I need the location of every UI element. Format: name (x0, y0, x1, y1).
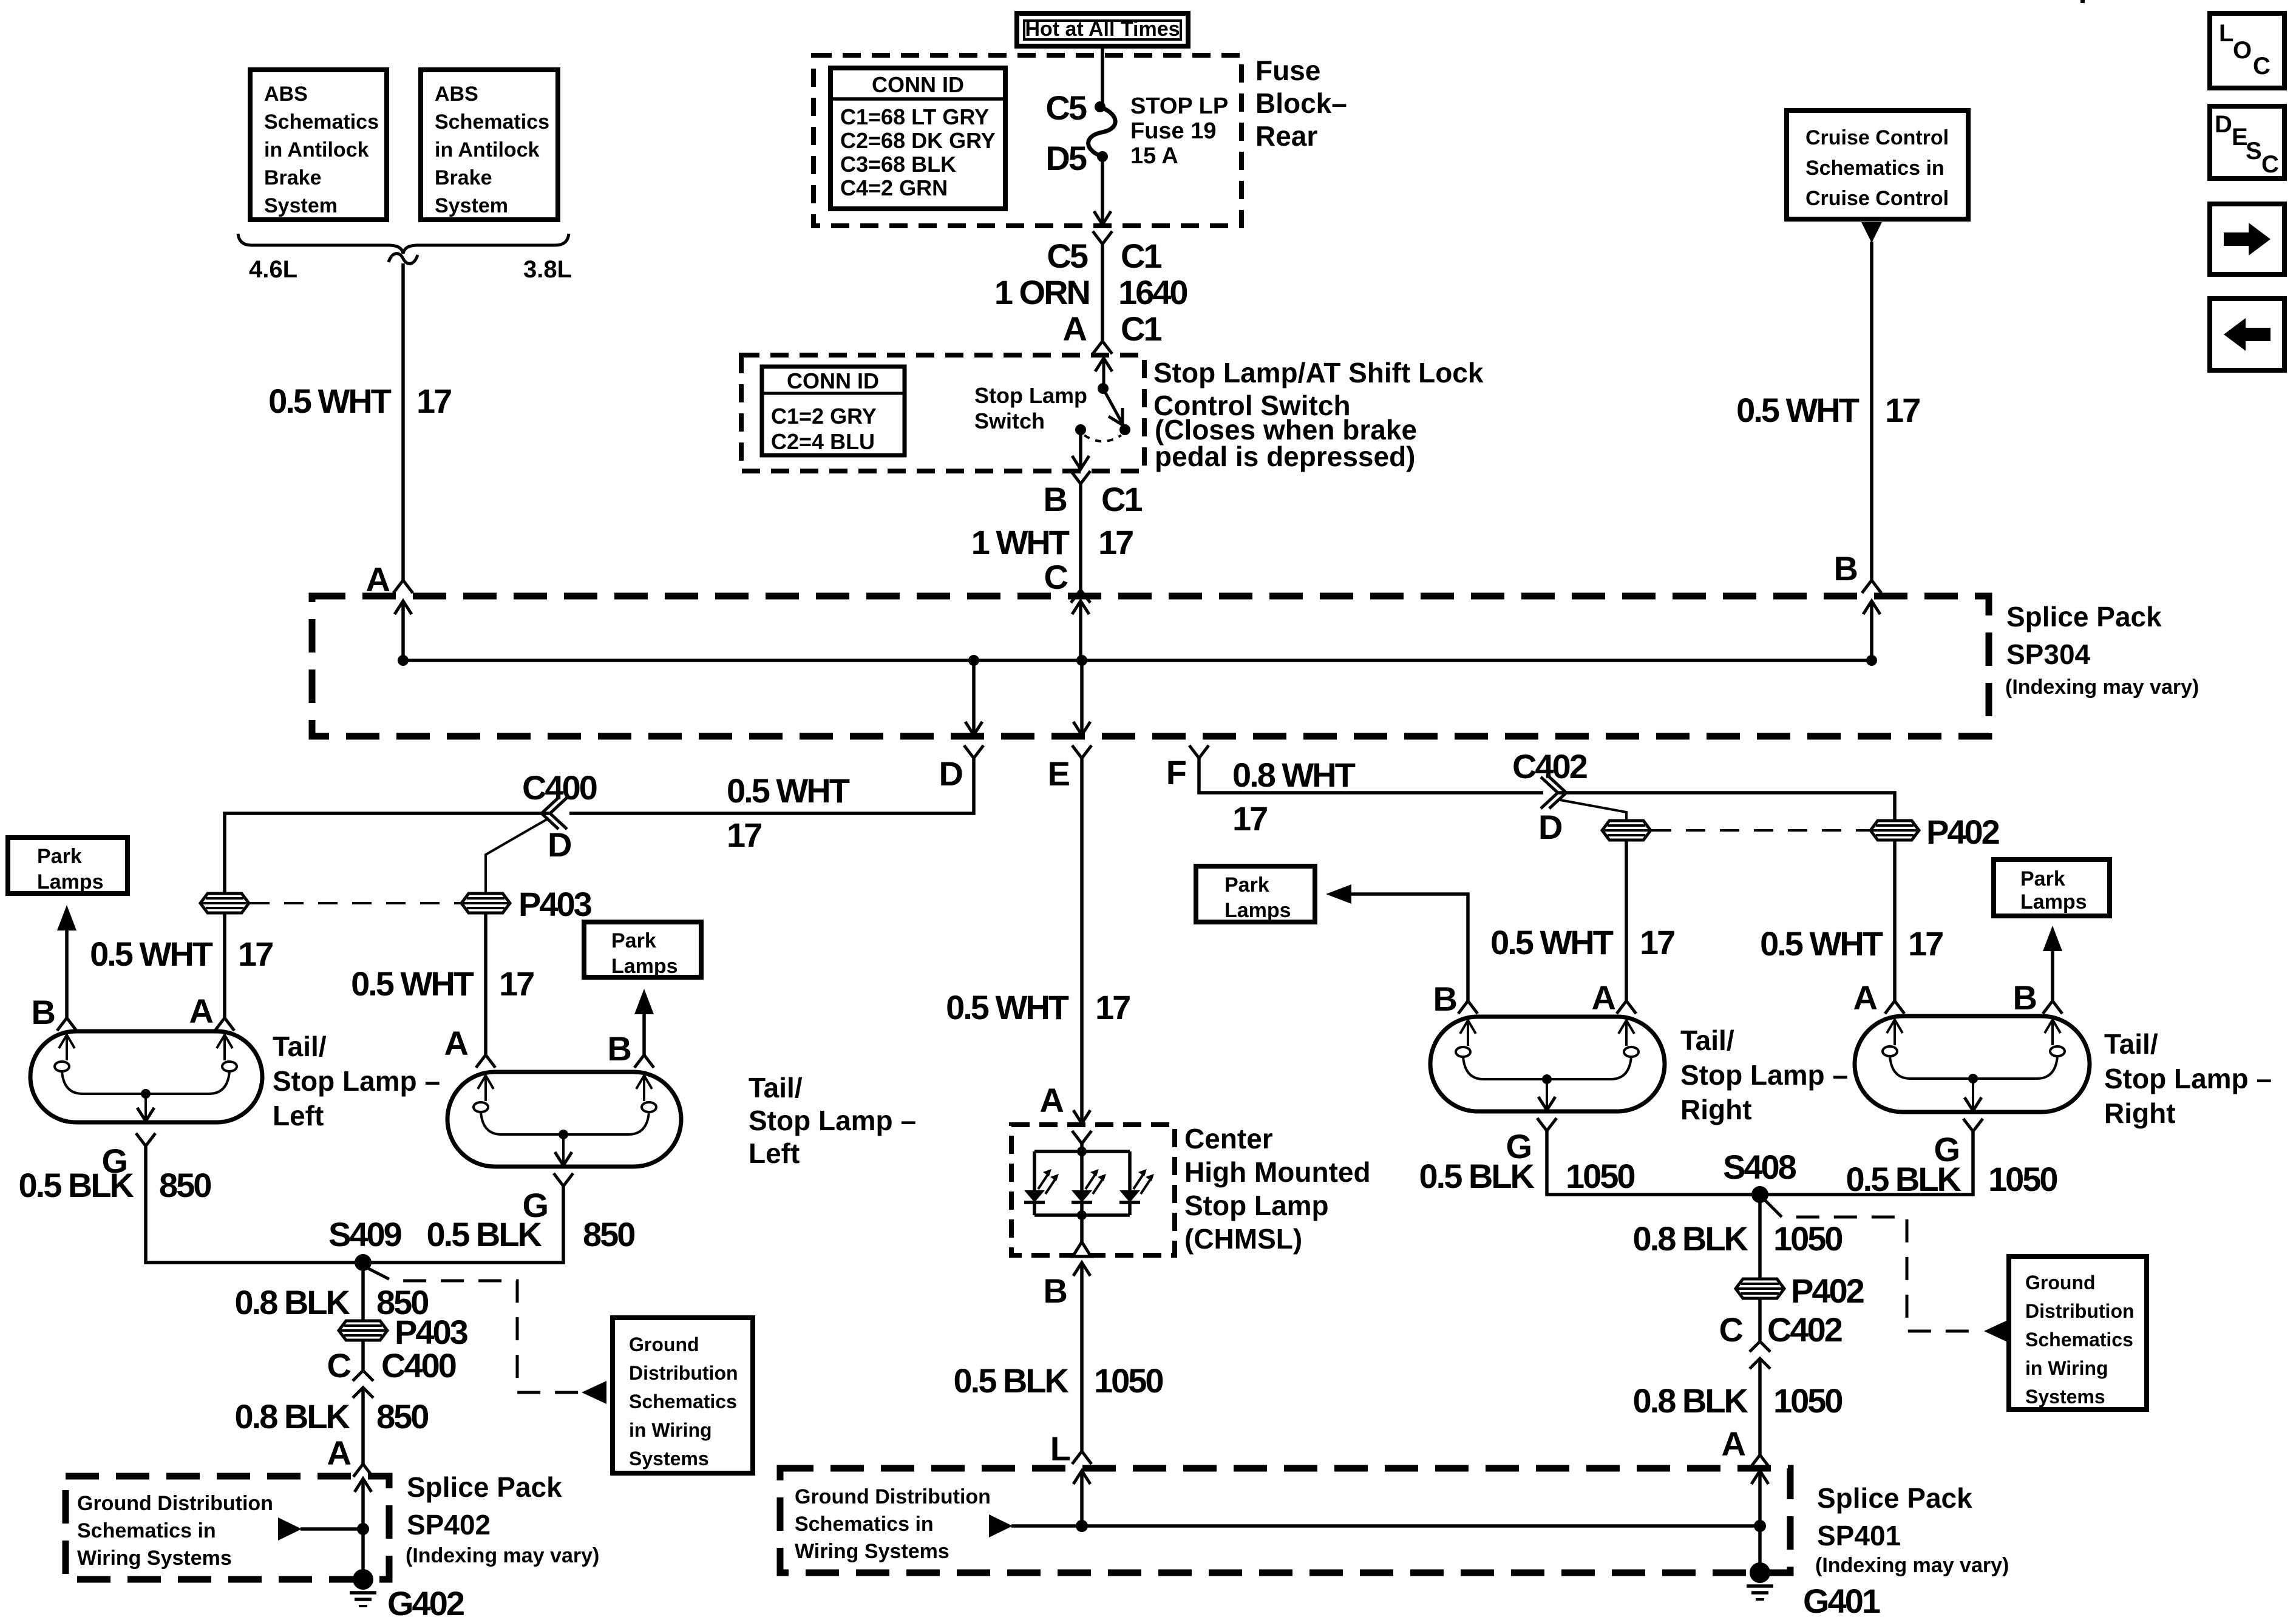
svg-text:Stop Lamp –: Stop Lamp – (273, 1065, 440, 1097)
lamp1 common dot (141, 1089, 151, 1099)
svg-text:A: A (189, 992, 213, 1030)
svg-text:B: B (1044, 480, 1067, 518)
svg-text:C4=2 GRN: C4=2 GRN (840, 175, 948, 200)
svg-text:Schematics: Schematics (435, 110, 549, 134)
wire SP304 E down to CHMSL (1080, 758, 1084, 1122)
lamp1 left filament (55, 1035, 83, 1094)
CHMSL top bus (1034, 1150, 1130, 1153)
svg-text:850: 850 (159, 1166, 211, 1204)
inline connector C400 pin C chevrons (353, 1371, 373, 1398)
svg-text:SP402: SP402 (407, 1509, 491, 1541)
CONN ID table (fuse block) (830, 68, 1005, 209)
svg-text:Stop Lamp –: Stop Lamp – (749, 1105, 916, 1136)
lamp2 right filament (628, 1076, 656, 1134)
svg-text:Tail/: Tail/ (749, 1072, 803, 1103)
svg-text:Tail/: Tail/ (2104, 1028, 2158, 1060)
SP401 internal bus (1011, 1524, 1760, 1528)
svg-text:C400: C400 (381, 1346, 456, 1385)
svg-text:(Indexing may vary): (Indexing may vary) (1815, 1554, 2009, 1577)
sidebar prev-page button (2210, 299, 2284, 370)
svg-text:C1: C1 (1101, 480, 1142, 518)
svg-text:Cruise Control: Cruise Control (1805, 126, 1949, 149)
leader arrowhead (left pointing) (1984, 1320, 2009, 1343)
svg-text:17: 17 (1908, 924, 1943, 963)
svg-text:in Antilock: in Antilock (435, 138, 540, 161)
diagonal wire C400 to P403 right drop (486, 818, 549, 893)
svg-text:Lamps: Lamps (2020, 890, 2087, 914)
svg-text:Brake: Brake (435, 166, 492, 189)
lamp3 right filament (1611, 1020, 1639, 1079)
chevron A inside CHMSL (1072, 1131, 1092, 1144)
ground G401 dot (1750, 1562, 1770, 1583)
svg-text:Schematics in: Schematics in (1805, 157, 1944, 180)
svg-text:17: 17 (1885, 391, 1920, 429)
Cruise Control reference box (1787, 110, 1968, 219)
inline connector C402 chevrons (1541, 777, 1566, 808)
wire D down and left to C400 (569, 758, 974, 813)
svg-text:B: B (2013, 978, 2036, 1017)
svg-text:Right: Right (2104, 1097, 2176, 1129)
sidebar DESC button (2210, 106, 2284, 178)
connector C5/C1 chevron (1093, 231, 1112, 244)
svg-text:1050: 1050 (1094, 1361, 1163, 1400)
chevron B lamp4 (2043, 1001, 2062, 1014)
lamp4 ground arrow (1972, 1079, 1974, 1110)
svg-text:Left: Left (273, 1100, 324, 1131)
svg-text:A: A (1722, 1425, 1745, 1463)
switch lower right contact dot (1119, 424, 1130, 435)
chevron G lamp3 (1537, 1118, 1557, 1131)
svg-text:Hot at All Times: Hot at All Times (1025, 18, 1180, 41)
chevron B lamp1 (57, 1018, 76, 1031)
Tail/Stop Lamp - Left (inner) body (447, 1072, 681, 1167)
lamp4 common dot (1968, 1074, 1978, 1083)
SP402 junction dot (357, 1523, 369, 1535)
svg-text:S: S (2246, 138, 2262, 164)
svg-text:3.8L: 3.8L (523, 256, 572, 283)
LED 2 (1072, 1151, 1106, 1215)
svg-text:D: D (939, 754, 963, 793)
svg-text:17: 17 (727, 816, 761, 854)
grommet P403 (ground) (339, 1321, 387, 1340)
svg-text:B: B (32, 993, 55, 1031)
svg-text:0.5 WHT: 0.5 WHT (727, 771, 850, 810)
junction dot B (1866, 655, 1877, 666)
svg-text:Splice Pack: Splice Pack (2006, 601, 2162, 632)
wire lamp2 G down to S409 (363, 1186, 563, 1263)
svg-text:0.5 BLK: 0.5 BLK (427, 1215, 542, 1253)
Stop Lamp Switch dashed box (741, 355, 1144, 471)
svg-text:L: L (2219, 20, 2233, 47)
svg-text:Wiring Systems: Wiring Systems (77, 1547, 232, 1570)
diagonal wire C402 to left P402 drop (1560, 800, 1626, 821)
junction dot E (1076, 655, 1087, 666)
arrow B up to edge (1870, 602, 1873, 660)
svg-text:Schematics: Schematics (629, 1391, 737, 1412)
arrow into SP401 (A wire) (1758, 1471, 1762, 1526)
svg-text:0.5 WHT: 0.5 WHT (90, 935, 213, 973)
svg-text:Center: Center (1184, 1123, 1273, 1154)
svg-text:Ground: Ground (629, 1334, 699, 1355)
svg-text:Ground: Ground (2025, 1272, 2096, 1293)
svg-text:Park: Park (611, 929, 656, 952)
svg-text:Fuse 19: Fuse 19 (1130, 118, 1217, 144)
svg-text:4.6L: 4.6L (249, 256, 297, 283)
svg-text:17: 17 (1640, 923, 1674, 961)
svg-text:Stop Lamp: Stop Lamp (974, 383, 1087, 408)
wire lamp3 G down to S408 (1547, 1131, 1760, 1195)
svg-text:1050: 1050 (1566, 1157, 1634, 1195)
svg-text:Cruise Control: Cruise Control (1805, 187, 1949, 210)
svg-text:1050: 1050 (1988, 1160, 2057, 1198)
SP401 junction dot (A) (1754, 1520, 1766, 1532)
svg-text:C2=4 BLU: C2=4 BLU (771, 429, 875, 454)
svg-text:C402: C402 (1767, 1310, 1842, 1349)
connector A/C1 chevron into switch box (1093, 341, 1112, 354)
svg-text:Switch: Switch (974, 408, 1045, 433)
page artifact top-right (2080, 0, 2085, 3)
CHMSL output wire and open terminal triangle (1080, 1215, 1084, 1243)
wire to SP401 (1758, 1360, 1762, 1455)
svg-text:0.5 WHT: 0.5 WHT (351, 964, 474, 1003)
svg-text:0.5 BLK: 0.5 BLK (1846, 1160, 1961, 1198)
leader arrowhead (left pointing) (582, 1381, 606, 1404)
wire cruise control to SP304 B (1870, 242, 1873, 580)
lamp2 internal bus (501, 1133, 628, 1136)
svg-text:0.5 WHT: 0.5 WHT (946, 988, 1069, 1026)
svg-text:C2=68 DK GRY: C2=68 DK GRY (840, 128, 996, 153)
svg-text:15 A: 15 A (1130, 143, 1178, 169)
wire fuse output with arrow at box edge (1101, 157, 1104, 223)
svg-text:1050: 1050 (1773, 1381, 1842, 1420)
wire P402 left to lamp3 A (1625, 840, 1628, 1001)
svg-text:Splice Pack: Splice Pack (1817, 1482, 1972, 1514)
wire lamp4 G down to S408 (1760, 1131, 1973, 1195)
chevron A lamp1 (215, 1018, 234, 1031)
Tail/Stop Lamp - Right (outer) body (1855, 1016, 2090, 1112)
svg-text:C: C (327, 1346, 351, 1385)
svg-text:Lamps: Lamps (611, 955, 678, 978)
svg-text:A: A (1592, 978, 1615, 1017)
svg-text:pedal is depressed): pedal is depressed) (1155, 441, 1416, 472)
dashed pairing line P402 (1652, 829, 1869, 832)
Park Lamps box 2 (584, 922, 701, 978)
svg-text:0.5 WHT: 0.5 WHT (268, 382, 392, 420)
svg-text:S409: S409 (328, 1215, 402, 1253)
Park Lamps box 3 (mid right) (1196, 866, 1315, 922)
SP304 internal bus (403, 659, 1872, 662)
wire CHMSL to SP401 (1080, 1263, 1084, 1451)
svg-text:Left: Left (749, 1137, 800, 1169)
splice S409 dot (355, 1254, 372, 1271)
svg-text:17: 17 (499, 964, 534, 1003)
svg-text:A: A (444, 1024, 468, 1062)
svg-text:Ground Distribution: Ground Distribution (795, 1485, 991, 1508)
svg-text:850: 850 (583, 1215, 634, 1253)
dashed leader S408 to ground distribution note (1765, 1201, 1983, 1331)
splice S408 dot (1751, 1186, 1768, 1203)
sidebar LOC button (2210, 13, 2284, 88)
svg-text:A: A (1063, 310, 1087, 348)
grommet P402 left (1602, 821, 1651, 840)
svg-text:in Antilock: in Antilock (264, 138, 369, 161)
wire grommet to C402 connector (1758, 1298, 1762, 1341)
chevron A into SP401 (1750, 1455, 1770, 1468)
Splice Pack SP304 dashed box (312, 596, 1989, 736)
terminal D chevron below SP304 (964, 745, 983, 758)
wire P403 left to lamp1 A (223, 913, 226, 1018)
svg-text:0.5 WHT: 0.5 WHT (1736, 391, 1860, 429)
svg-text:System: System (264, 194, 338, 217)
svg-text:C1: C1 (1121, 310, 1161, 348)
svg-text:Schematics in: Schematics in (795, 1513, 934, 1536)
svg-text:0.8 BLK: 0.8 BLK (1633, 1381, 1748, 1420)
wire S409 down to P403 (361, 1263, 365, 1321)
fuse terminal D5 dot (1097, 151, 1108, 162)
wire to SP402 (361, 1389, 365, 1464)
SP401 internal feed arrowhead (right pointing) (989, 1514, 1013, 1537)
svg-text:C5: C5 (1045, 89, 1086, 127)
switch common contact dot (1075, 424, 1086, 435)
svg-text:0.5 BLK: 0.5 BLK (1419, 1157, 1535, 1195)
svg-text:Park: Park (1224, 873, 1269, 897)
arrow C up to edge (1079, 602, 1082, 660)
connector chevron B into SP304 (1862, 580, 1881, 593)
lamp2 left filament (474, 1076, 501, 1134)
SP401 junction dot (L) (1076, 1520, 1088, 1532)
LED 3 (1119, 1151, 1154, 1215)
park lamps feed arrowhead 3 (left pointing) (1326, 884, 1351, 904)
svg-text:0.5 BLK: 0.5 BLK (19, 1166, 134, 1204)
svg-text:P403: P403 (395, 1313, 468, 1351)
Fuse Block dashed box (813, 55, 1241, 226)
grommet P403 right (461, 893, 510, 913)
svg-text:System: System (435, 194, 508, 217)
svg-text:B: B (1044, 1272, 1067, 1310)
svg-text:C: C (2261, 151, 2279, 178)
ground G401 bars (1747, 1586, 1773, 1599)
svg-text:B: B (1834, 549, 1857, 588)
svg-text:Lamps: Lamps (37, 870, 104, 893)
switch blade with arrowhead (1103, 388, 1124, 426)
wire ABS feed down to SP304 A (401, 263, 405, 580)
svg-text:B: B (1433, 980, 1456, 1018)
svg-text:1 WHT: 1 WHT (971, 523, 1070, 561)
grommet P403 left (200, 893, 249, 913)
wire fuse to switch (1101, 244, 1104, 341)
svg-text:A: A (1853, 978, 1877, 1017)
svg-text:C: C (2253, 53, 2271, 80)
svg-text:D5: D5 (1045, 139, 1086, 177)
wire F down and right to C402 (1199, 758, 1543, 793)
fuse element (1089, 107, 1116, 157)
switch upper contact dot (1098, 383, 1109, 394)
lamp4 internal bus (1911, 1077, 2037, 1080)
chevron B lamp2 (634, 1055, 654, 1068)
svg-text:17: 17 (1232, 799, 1267, 838)
svg-text:E: E (1048, 754, 1070, 793)
switch dashed travel arc (1084, 435, 1121, 441)
SP402 internal feed arrowhead (right pointing) (278, 1517, 302, 1541)
dashed leader S409 to ground distribution note (369, 1269, 580, 1392)
Tail/Stop Lamp - Left (outer) body (30, 1031, 262, 1122)
arrow up below CHMSL (1073, 1263, 1090, 1276)
switch input arrow (points up to top edge) (1102, 359, 1106, 388)
svg-text:ABS: ABS (264, 83, 308, 106)
svg-text:C1=68 LT GRY: C1=68 LT GRY (840, 104, 989, 129)
wire lamp1 B up to park lamps (65, 929, 69, 1018)
svg-text:(CHMSL): (CHMSL) (1184, 1223, 1302, 1255)
CHMSL bottom bus (1034, 1213, 1130, 1217)
svg-text:D: D (2215, 111, 2232, 138)
svg-text:Stop Lamp –: Stop Lamp – (2104, 1063, 2272, 1094)
svg-text:P402: P402 (1791, 1272, 1864, 1310)
svg-text:Stop Lamp: Stop Lamp (1184, 1190, 1329, 1221)
svg-text:A: A (327, 1434, 351, 1472)
svg-text:C1: C1 (1121, 237, 1161, 275)
svg-text:0.8 WHT: 0.8 WHT (1232, 756, 1356, 794)
svg-text:SP304: SP304 (2006, 639, 2091, 670)
svg-text:Right: Right (1680, 1094, 1752, 1125)
svg-text:(Indexing may vary): (Indexing may vary) (406, 1544, 599, 1567)
Ground Distribution note box (left) (613, 1318, 753, 1473)
svg-text:Schematics: Schematics (264, 110, 379, 134)
svg-text:G401: G401 (1803, 1582, 1880, 1617)
svg-text:C400: C400 (522, 768, 597, 807)
svg-text:Tail/: Tail/ (273, 1031, 327, 1062)
lamp1 right filament (209, 1035, 237, 1094)
svg-text:0.8 BLK: 0.8 BLK (1633, 1219, 1748, 1258)
chevron A lamp2 (476, 1055, 495, 1068)
svg-text:Stop Lamp –: Stop Lamp – (1680, 1059, 1848, 1091)
lamp3 ground arrow (1546, 1079, 1548, 1109)
chevron A into SP402 (353, 1464, 373, 1477)
wire lamp1 G down to S409 (146, 1146, 363, 1263)
svg-text:C402: C402 (1512, 747, 1587, 785)
fuse terminal C5 dot (1095, 101, 1106, 112)
sidebar next-page button (2210, 204, 2284, 274)
svg-text:D: D (548, 825, 571, 864)
svg-text:0.5 WHT: 0.5 WHT (1760, 924, 1883, 963)
inline connector C400 chevrons (542, 798, 567, 829)
svg-text:C: C (1044, 558, 1068, 596)
arrow into SP402 (361, 1479, 365, 1529)
wire C402 right and down to right P402 (1558, 793, 1895, 821)
Park Lamps box 1 (far left) (8, 838, 127, 893)
CHMSL ground dot (1077, 1210, 1087, 1220)
lamp3 common dot (1542, 1074, 1552, 1084)
svg-text:B: B (608, 1029, 631, 1068)
svg-text:P403: P403 (518, 885, 592, 923)
svg-text:Schematics in: Schematics in (77, 1519, 216, 1542)
svg-text:Schematics: Schematics (2025, 1329, 2133, 1351)
lamp3 internal bus (1484, 1078, 1611, 1080)
wire from Hot box into fuse (1101, 46, 1104, 107)
wire grommet to C400 connector (361, 1340, 365, 1370)
Hot at All Times box (1017, 13, 1188, 46)
svg-text:C3=68 BLK: C3=68 BLK (840, 152, 956, 177)
svg-text:1640: 1640 (1118, 273, 1187, 311)
wire to G401 (1758, 1526, 1762, 1573)
wire left of C400 to left drop (225, 813, 550, 893)
svg-text:S408: S408 (1723, 1148, 1796, 1186)
lamp2 ground arrow (562, 1134, 565, 1164)
cruise feed arrowhead (1861, 222, 1882, 243)
svg-text:17: 17 (416, 382, 451, 420)
lamp4 left filament (1883, 1020, 1911, 1079)
park lamps feed arrowhead 2 (634, 989, 654, 1014)
lamp1 internal bus (83, 1093, 209, 1095)
svg-text:Systems: Systems (629, 1448, 709, 1470)
svg-text:High Mounted: High Mounted (1184, 1156, 1371, 1188)
dashed pairing line P403 (250, 902, 460, 904)
CONN ID table (switch) (762, 367, 905, 455)
wire P403 right to lamp2 A (484, 913, 487, 1055)
svg-text:0.5 BLK: 0.5 BLK (954, 1361, 1069, 1400)
svg-text:in Wiring: in Wiring (629, 1419, 712, 1441)
svg-text:Systems: Systems (2025, 1386, 2105, 1408)
svg-text:Fuse: Fuse (1255, 55, 1320, 86)
wire S408 down to P402 (1758, 1195, 1762, 1279)
wire lamp3 B to park lamps (1350, 894, 1468, 1001)
ground G402 bars (350, 1593, 376, 1606)
svg-text:Park: Park (2020, 867, 2065, 890)
wire break squiggle (389, 254, 418, 264)
svg-text:17: 17 (1095, 988, 1130, 1026)
svg-text:Tail/: Tail/ (1680, 1025, 1734, 1056)
chevron B lamp3 (1458, 1001, 1478, 1014)
svg-text:ABS: ABS (435, 83, 478, 106)
svg-text:850: 850 (376, 1397, 428, 1436)
chevron G lamp4 (1963, 1119, 1983, 1131)
svg-text:A: A (1040, 1081, 1064, 1119)
CHMSL dashed box (1011, 1125, 1175, 1255)
wire switch to SP304 (1079, 484, 1082, 590)
grommet P402 right (1870, 821, 1919, 840)
wire lamp4 B up to park lamps (2051, 950, 2054, 1001)
SP402 internal wire (301, 1527, 363, 1531)
svg-text:C1=2 GRY: C1=2 GRY (771, 404, 877, 429)
lamp4 right filament (2037, 1020, 2065, 1079)
inline connector C402 pin C chevrons (1750, 1341, 1770, 1369)
junction dot A (398, 655, 409, 666)
arrow into CHMSL (1073, 1110, 1090, 1124)
svg-text:0.5 WHT: 0.5 WHT (1490, 923, 1614, 961)
svg-text:Rear: Rear (1255, 120, 1317, 152)
lamp1 ground arrow (144, 1094, 147, 1120)
wire lamp2 B up to park lamps (642, 1013, 646, 1055)
Splice Pack SP402 dashed box (66, 1476, 389, 1579)
lamp3 left filament (1456, 1020, 1484, 1079)
terminal F chevron below SP304 (1189, 745, 1209, 758)
brace under ABS boxes (238, 234, 569, 254)
park lamps feed arrowhead 1 (57, 905, 76, 931)
svg-text:Splice Pack: Splice Pack (407, 1471, 562, 1503)
CHMSL feed dot (1077, 1147, 1087, 1156)
svg-text:17: 17 (1098, 523, 1133, 561)
svg-text:17: 17 (238, 935, 273, 973)
svg-text:F: F (1166, 753, 1186, 792)
svg-text:Distribution: Distribution (2025, 1300, 2135, 1322)
svg-text:Wiring Systems: Wiring Systems (795, 1540, 949, 1563)
chevron A lamp4 (1885, 1001, 1904, 1014)
svg-text:L: L (1050, 1429, 1070, 1468)
svg-text:G402: G402 (387, 1584, 464, 1617)
svg-text:Park: Park (37, 845, 82, 868)
Splice Pack SP401 dashed box (780, 1468, 1790, 1573)
LED 1 (1024, 1151, 1059, 1215)
svg-text:C: C (1719, 1310, 1743, 1349)
